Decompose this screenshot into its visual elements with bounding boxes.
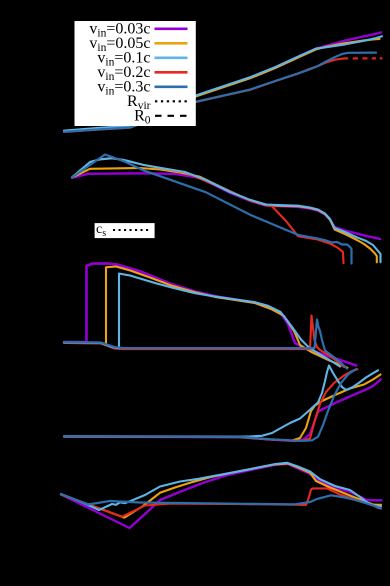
legend sample c_s dotted: [113, 229, 149, 231]
curve P1 v_in=0.2c red: [64, 58, 382, 132]
curve P2 steel blue: [72, 155, 352, 264]
curve P4 purple: [64, 380, 381, 441]
curve P4 light blue: [64, 366, 378, 437]
curve P5 steel blue: [61, 494, 381, 508]
curve P4 orange: [64, 375, 381, 441]
curve P1 v_in=0.05c orange: [64, 39, 380, 131]
curve P3 light blue: [64, 274, 340, 367]
legend labels: [89, 20, 150, 126]
curve P1 v_in=0.1c light blue: [64, 36, 382, 130]
curve P2 red: [72, 158, 344, 263]
legend sample 0.03c purple: [155, 27, 188, 30]
legend sample 0.2c red: [155, 71, 188, 74]
curve P5 light blue: [61, 463, 381, 510]
curve P3 red: [64, 316, 344, 368]
legend box c_s: [95, 223, 155, 238]
curve P3 steel blue: [64, 320, 347, 369]
curve P4 steel blue: [64, 369, 356, 441]
curve P5 red: [61, 488, 381, 516]
legend sample 0.3c steel blue: [155, 86, 188, 89]
curve P1 v_in=0.3c steel blue: [64, 53, 376, 132]
curve P1 v_in=0.03c purple: [64, 32, 381, 131]
curve P2 orange: [72, 168, 377, 262]
curve P3 purple: [64, 263, 356, 365]
legend sample 0.05c orange: [155, 42, 188, 45]
legend sample 0.1c light blue: [155, 56, 188, 59]
black dashes over red flat (invisible R0 line crossing): [349, 57, 379, 59]
curve P2 purple: [72, 173, 380, 239]
curve P2 light blue: [72, 158, 381, 262]
curve P5 purple: [61, 464, 382, 528]
legend sample R_vir dotted black: [155, 100, 188, 102]
legend box: [75, 21, 196, 126]
curve P4 red: [64, 369, 358, 441]
curve P5 orange: [61, 464, 381, 518]
legend sample R_0 dashed black: [155, 115, 188, 117]
curve P3 orange: [64, 267, 347, 368]
svg-text:vin=0.3c: vin=0.3c: [97, 78, 150, 97]
